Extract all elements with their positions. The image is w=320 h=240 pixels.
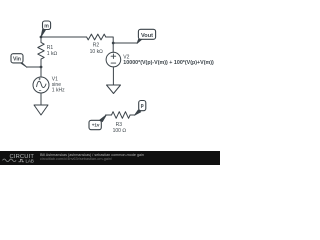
voltage source V1 xyxy=(33,77,49,93)
footer bar xyxy=(0,151,220,165)
label R2 value xyxy=(90,43,103,55)
junction node at V2/Vout xyxy=(112,42,115,45)
svg-text:m: m xyxy=(44,24,49,30)
resistor R2 xyxy=(87,34,106,40)
svg-text:1 kHz: 1 kHz xyxy=(52,88,65,94)
CircuitLab logo xyxy=(3,154,35,164)
wire +1v flag to R3 xyxy=(106,114,112,116)
junction node at Vin/R1/V1 xyxy=(40,66,43,69)
svg-text:10 kΩ: 10 kΩ xyxy=(90,49,103,55)
wire junction to V1 top xyxy=(40,67,42,77)
resistor R3 xyxy=(112,112,131,119)
wire V1 bottom to ground xyxy=(40,93,42,105)
svg-text:R2: R2 xyxy=(93,43,100,49)
node flag p xyxy=(134,101,145,116)
svg-text:+1v: +1v xyxy=(92,123,100,128)
svg-text:100 Ω: 100 Ω xyxy=(113,128,127,134)
svg-text:Vin: Vin xyxy=(13,57,21,63)
svg-text:1 kΩ: 1 kΩ xyxy=(47,51,58,57)
wire R2 to corner, down to V2 top xyxy=(106,37,113,52)
svg-text:circuitlab.com/c/4hv63r/sebast: circuitlab.com/c/4hv63r/sebastian-cm-gai… xyxy=(40,157,112,161)
node flag Vout xyxy=(137,29,156,43)
svg-text:p: p xyxy=(141,103,144,109)
wire node m to R2 xyxy=(41,36,87,38)
svg-text:Vout: Vout xyxy=(141,33,153,39)
svg-text:LAB: LAB xyxy=(26,158,34,163)
svg-text:R3: R3 xyxy=(116,122,123,128)
ground symbol (V2) xyxy=(107,85,121,94)
node flag +1v xyxy=(89,115,106,130)
label R3 value xyxy=(113,122,127,134)
dependent source V2 xyxy=(106,52,121,67)
svg-text:10000*(V(p)-V(m)) + 100*(V(p)+: 10000*(V(p)-V(m)) + 100*(V(p)+V(m)) xyxy=(123,60,214,66)
label V1 value xyxy=(52,76,65,93)
node flag m xyxy=(41,21,51,37)
label R1 value xyxy=(47,45,58,57)
resistor R1 xyxy=(38,37,44,67)
ground symbol (V1) xyxy=(34,105,48,115)
junction node at m/R1/R2 xyxy=(40,36,43,39)
node flag Vin xyxy=(11,54,27,68)
wire Vin flag to junction xyxy=(27,66,42,68)
wire V2 bottom to ground xyxy=(112,67,114,85)
wire junction to Vout flag xyxy=(113,42,137,44)
wire R3 to p flag xyxy=(130,114,135,116)
